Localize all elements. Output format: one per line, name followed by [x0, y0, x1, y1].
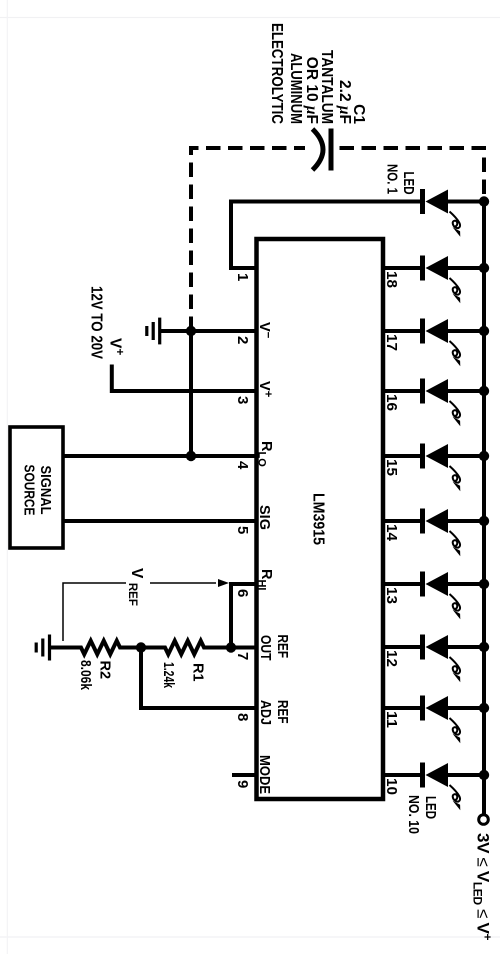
LED D6 anode wire [448, 519, 484, 523]
junction dot LED D6 / V_LED rail [479, 516, 489, 526]
svg-text:4: 4 [234, 461, 251, 470]
pin 7 wire [231, 646, 257, 650]
svg-text:NO. 1: NO. 1 [384, 164, 401, 194]
LED D9 anode wire [448, 706, 484, 710]
node pin 4 junction dot [186, 451, 196, 461]
svg-text:MODE: MODE [256, 755, 272, 794]
svg-text:VREF: VREF [126, 568, 145, 606]
svg-text:REF: REF [274, 635, 290, 659]
svg-text:ADJ: ADJ [257, 700, 273, 725]
svg-text:OUT: OUT [257, 635, 273, 661]
LED D10 (LED NO. 10) triangle [426, 763, 449, 787]
LED D2 triangle [426, 256, 449, 280]
LED D1 (LED NO. 1) triangle [426, 190, 449, 214]
svg-text:12V TO 20V: 12V TO 20V [88, 286, 105, 359]
svg-text:R1: R1 [190, 663, 206, 682]
LED D9 cathode bar [420, 696, 425, 721]
LED D9 triangle [426, 696, 449, 720]
svg-text:ALUMINUM: ALUMINUM [287, 53, 304, 124]
svg-text:R2: R2 [97, 661, 113, 680]
svg-text:LED: LED [400, 172, 417, 195]
svg-text:16: 16 [383, 394, 400, 411]
svg-text:NO. 10: NO. 10 [405, 795, 422, 834]
LED D4 light arrow [450, 401, 461, 418]
wire ground trunk to pin 4 [189, 331, 193, 456]
LED D2 cathode bar [420, 256, 425, 281]
capacitor C1 [329, 129, 334, 171]
resistor R2 [50, 641, 142, 655]
signal source box [10, 427, 63, 548]
VREF measurement lines with arrow [63, 583, 216, 641]
junction dot LED D2 / V_LED rail [479, 263, 489, 273]
pin 4 wire [63, 454, 257, 458]
svg-text:8.06k: 8.06k [77, 660, 93, 691]
C1 value label [268, 23, 367, 124]
LED D5 anode wire [448, 454, 484, 458]
junction dot LED D3 / V_LED rail [479, 326, 489, 336]
wire pin 1 to LED D1 [231, 202, 420, 269]
LED D10 (LED NO. 10) light arrow [450, 785, 461, 802]
svg-text:SIG: SIG [256, 505, 272, 530]
svg-text:18: 18 [383, 271, 400, 288]
svg-text:7: 7 [234, 652, 251, 660]
svg-text:2: 2 [234, 336, 251, 344]
LED D8 light arrow [450, 657, 461, 674]
pin 17 wire [383, 329, 420, 333]
junction dot LED D7 / V_LED rail [479, 579, 489, 589]
LED D4 triangle [426, 379, 449, 403]
pin 3 wire (V+ supply) [112, 365, 257, 392]
LED D10 (LED NO. 10) cathode bar [420, 763, 425, 788]
ground symbol at R2 [36, 635, 49, 661]
svg-text:12: 12 [383, 650, 400, 667]
LED D1 (LED NO. 1) anode wire [448, 200, 484, 204]
svg-text:RHI: RHI [256, 569, 275, 590]
svg-text:SIGNAL: SIGNAL [37, 466, 54, 515]
LED D4 cathode bar [420, 379, 425, 404]
pin 5 wire (SIG) [63, 519, 257, 523]
LED D7 triangle [426, 572, 449, 596]
dashed wire ground to C1 [191, 148, 305, 331]
LED D5 light arrow [450, 466, 461, 483]
svg-text:13: 13 [383, 587, 400, 604]
pin 9 wire stub (MODE) [232, 773, 257, 777]
LED D6 triangle [426, 509, 449, 533]
pin 18 wire [383, 266, 420, 270]
LED D1 (LED NO. 1) light arrow [450, 212, 461, 229]
svg-text:RLO: RLO [256, 441, 275, 467]
pin 2 wire [191, 329, 257, 333]
junction dot LED D10 (LED NO. 10) / V_LED rail [479, 770, 489, 780]
svg-text:5: 5 [234, 526, 251, 534]
LED D7 cathode bar [420, 572, 425, 597]
svg-text:SOURCE: SOURCE [21, 465, 38, 516]
LED D6 light arrow [450, 531, 461, 548]
LED D10 (LED NO. 10) anode wire [448, 773, 484, 777]
LED D5 triangle [426, 444, 449, 468]
junction dot LED D1 (LED NO. 1) / V_LED rail [479, 196, 489, 206]
svg-text:14: 14 [383, 524, 400, 542]
LED D8 triangle [426, 635, 449, 659]
pin 6 wire (RHI to REF OUT) [231, 584, 257, 648]
pin 16 wire [383, 389, 420, 393]
dashed wire C1 to V_LED rail [340, 148, 485, 196]
svg-text:11: 11 [383, 711, 400, 728]
svg-text:17: 17 [383, 334, 400, 351]
svg-text:V+: V+ [107, 338, 128, 355]
LED D1 (LED NO. 1) cathode bar [420, 189, 425, 214]
svg-text:8: 8 [234, 713, 251, 721]
terminal V_LED (open circle) [479, 815, 489, 825]
svg-text:ELECTROLYTIC: ELECTROLYTIC [268, 23, 285, 124]
node pin2/ground junction dot [186, 326, 196, 336]
wire V_LED rail [482, 202, 486, 815]
LED D8 anode wire [448, 645, 484, 649]
svg-text:6: 6 [234, 589, 251, 597]
svg-text:9: 9 [234, 780, 251, 788]
LED D3 cathode bar [420, 319, 425, 344]
junction dot LED D5 / V_LED rail [479, 451, 489, 461]
svg-text:LED: LED [422, 796, 439, 819]
svg-text:2.2 μF: 2.2 μF [336, 80, 353, 124]
IC U1 LM3915 body [257, 239, 384, 799]
svg-text:LM3915: LM3915 [310, 493, 327, 545]
LED D4 anode wire [448, 389, 484, 393]
LED D3 triangle [426, 319, 449, 343]
pin 14 wire [383, 519, 420, 523]
junction dot LED D4 / V_LED rail [479, 386, 489, 396]
svg-text:OR 10 μF: OR 10 μF [303, 57, 320, 124]
LED D9 light arrow [450, 718, 461, 735]
svg-text:3V ≤ VLED ≤ V+: 3V ≤ VLED ≤ V+ [471, 833, 495, 941]
LED D2 light arrow [450, 278, 461, 295]
node REF OUT junction dot [226, 642, 236, 652]
LED D2 anode wire [448, 266, 484, 270]
junction dot LED D8 / V_LED rail [479, 642, 489, 652]
pin 12 wire [383, 645, 420, 649]
svg-text:15: 15 [383, 459, 400, 476]
LED D3 anode wire [448, 329, 484, 333]
svg-text:10: 10 [383, 778, 400, 795]
LED D7 anode wire [448, 582, 484, 586]
svg-text:3: 3 [234, 396, 251, 404]
wire R1/R2 junction to pin 8 [141, 648, 257, 709]
svg-text:REF: REF [274, 700, 290, 724]
svg-text:1: 1 [234, 273, 251, 281]
LED D8 cathode bar [420, 635, 425, 660]
resistor R1 [141, 641, 231, 655]
junction dot LED D9 / V_LED rail [479, 703, 489, 713]
LED D5 cathode bar [420, 444, 425, 469]
ground symbol at pin 2 [147, 318, 191, 345]
LED D3 light arrow [450, 341, 461, 358]
pin 11 wire [383, 706, 420, 710]
pin 15 wire [383, 454, 420, 458]
svg-text:1.24k: 1.24k [160, 662, 176, 689]
node R1/R2 junction dot [136, 642, 146, 652]
LED D6 cathode bar [420, 509, 425, 534]
pin 10 wire [383, 773, 420, 777]
LED D7 light arrow [450, 594, 461, 611]
pin 13 wire [383, 582, 420, 586]
